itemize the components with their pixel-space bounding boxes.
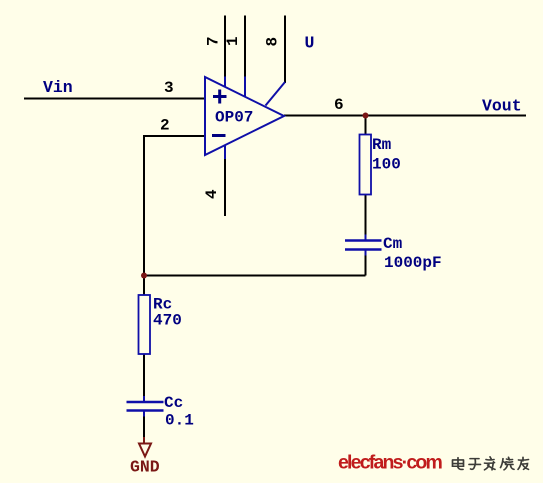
pin 4 stub [224,145,226,159]
op-amp plus input marker [213,90,227,104]
wire Cm bottom vertical [365,251,367,276]
capacitor Cm [345,235,382,256]
resistor Rc [139,295,151,354]
logo chinese characters 电子发烧友 [453,457,529,470]
svg-text:2: 2 [160,117,170,135]
svg-text:Vout: Vout [482,97,522,116]
svg-text:OP07: OP07 [215,109,253,127]
junction node output [363,113,369,119]
svg-text:Cm: Cm [383,235,403,253]
ground label GND [130,458,160,477]
pin number 1 [224,36,242,46]
wire bottom horizontal node to Cm [143,275,366,277]
label Rm [372,136,392,154]
pin number 8 [264,37,282,47]
value 100 [372,156,401,174]
wire pin 4 [224,159,226,216]
pin number 4 [203,189,221,199]
wire output to Vout [284,115,526,117]
value 470 [153,312,182,330]
pin 7 stub [224,77,226,89]
net label Vin [43,78,73,97]
op-amp label OP07 [215,109,253,127]
svg-text:1000pF: 1000pF [384,254,442,272]
wire pin 1 [244,16,246,77]
svg-text:8: 8 [264,37,282,47]
wire pin 8 [284,16,286,84]
pin number 3 [164,79,174,97]
svg-text:Rm: Rm [372,136,392,154]
svg-text:U: U [305,34,315,53]
svg-text:100: 100 [372,156,401,174]
svg-text:Vin: Vin [43,78,73,97]
wire output node to Rm [365,116,367,137]
wire Vin to pin 3 [24,98,205,100]
value 1000pF [384,254,442,272]
svg-text:470: 470 [153,312,182,330]
子 [469,459,481,470]
net label Vout [482,97,522,116]
wire node to Rc [143,276,145,297]
label Cm [383,235,403,253]
value 0.1 [165,412,194,430]
wire feedback vertical [143,135,145,276]
wire Cc to ground black part [143,415,145,437]
发 [485,457,496,470]
wire Rm to Cm [365,194,367,239]
pin number 6 [334,96,344,114]
label Cc [164,394,183,412]
烧 [501,457,515,470]
wire Rc to Cc [143,353,145,398]
svg-text:0.1: 0.1 [165,412,194,430]
svg-text:7: 7 [205,36,223,46]
svg-text:Cc: Cc [164,394,183,412]
svg-text:4: 4 [203,189,221,199]
pin 8 stub diagonal [266,82,286,106]
op-amp U1 OP07 body [205,77,284,155]
svg-text:GND: GND [130,458,160,477]
pin 1 stub [244,77,246,99]
svg-text:1: 1 [224,36,242,46]
wire pin 2 horizontal [144,135,205,137]
svg-text:elecfans·com: elecfans·com [338,452,442,474]
友 [518,457,529,469]
label Rc [153,296,172,314]
logo elecfans.com [338,452,442,474]
junction node feedback [141,273,147,279]
op-amp minus input marker [212,134,226,137]
resistor Rm [360,135,372,195]
wire pin 7 [224,16,226,77]
wire Cc to ground maroon part [143,437,145,444]
capacitor Cc [127,396,164,417]
net label U [305,34,315,53]
pin number 2 [160,117,170,135]
ground symbol [139,444,151,457]
pin number 7 [205,36,223,46]
svg-text:6: 6 [334,96,344,114]
电 [453,458,464,470]
svg-text:3: 3 [164,79,174,97]
